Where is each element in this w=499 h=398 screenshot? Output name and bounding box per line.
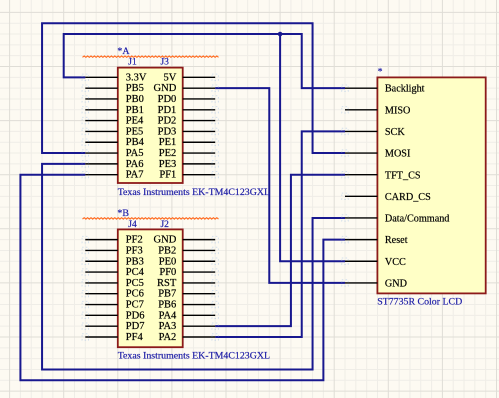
svg-text:PD2: PD2: [158, 116, 177, 127]
svg-text:PE4: PE4: [126, 116, 144, 127]
svg-text:PA6: PA6: [126, 159, 144, 170]
svg-text:J3: J3: [160, 58, 169, 68]
svg-text:PC7: PC7: [126, 300, 144, 311]
svg-text:PC6: PC6: [126, 289, 144, 300]
svg-text:PB5: PB5: [126, 83, 144, 94]
svg-text:PF0: PF0: [159, 267, 176, 278]
svg-text:*: *: [378, 68, 383, 78]
svg-text:PE5: PE5: [126, 126, 144, 137]
svg-text:PD3: PD3: [158, 126, 177, 137]
svg-text:SCK: SCK: [385, 127, 405, 138]
svg-text:PE2: PE2: [159, 148, 177, 159]
svg-text:MOSI: MOSI: [385, 149, 411, 160]
svg-text:Data/Command: Data/Command: [385, 214, 450, 225]
svg-text:PC4: PC4: [126, 267, 145, 278]
svg-text:PF4: PF4: [126, 332, 144, 343]
svg-text:PB2: PB2: [158, 245, 176, 256]
svg-text:PD7: PD7: [126, 321, 145, 332]
svg-text:PA2: PA2: [159, 332, 177, 343]
svg-text:PB7: PB7: [158, 289, 176, 300]
svg-text:GND: GND: [385, 279, 407, 290]
svg-text:PC5: PC5: [126, 278, 144, 289]
svg-text:PF1: PF1: [159, 170, 176, 181]
svg-text:PE0: PE0: [159, 256, 177, 267]
svg-text:PE3: PE3: [159, 159, 177, 170]
svg-text:3.3V: 3.3V: [126, 72, 147, 83]
svg-text:Backlight: Backlight: [385, 84, 425, 95]
svg-text:J1: J1: [128, 58, 137, 68]
svg-text:PB4: PB4: [126, 137, 145, 148]
svg-text:PB6: PB6: [158, 300, 176, 311]
svg-text:PD6: PD6: [126, 310, 145, 321]
svg-text:PA7: PA7: [126, 170, 144, 181]
svg-text:VCC: VCC: [385, 257, 406, 268]
svg-text:TFT_CS: TFT_CS: [385, 170, 421, 181]
svg-text:PB1: PB1: [126, 105, 144, 116]
svg-text:Texas Instruments EK-TM4C123GX: Texas Instruments EK-TM4C123GXL: [118, 187, 270, 198]
svg-text:PD1: PD1: [158, 105, 177, 116]
svg-text:Reset: Reset: [385, 235, 408, 246]
svg-text:*B: *B: [117, 208, 129, 219]
svg-text:PA5: PA5: [126, 148, 144, 159]
svg-text:Texas Instruments EK-TM4C123GX: Texas Instruments EK-TM4C123GXL: [118, 350, 270, 361]
svg-text:RST: RST: [157, 278, 177, 289]
svg-text:PD0: PD0: [158, 94, 177, 105]
svg-text:PA3: PA3: [159, 321, 177, 332]
svg-text:PB0: PB0: [126, 94, 144, 105]
svg-text:PA4: PA4: [159, 310, 177, 321]
svg-text:J4: J4: [128, 220, 137, 230]
svg-text:5V: 5V: [163, 72, 176, 83]
svg-text:J2: J2: [160, 220, 169, 230]
svg-text:PE1: PE1: [159, 137, 177, 148]
svg-text:*A: *A: [117, 46, 130, 57]
svg-text:PB3: PB3: [126, 256, 144, 267]
svg-text:CARD_CS: CARD_CS: [385, 192, 431, 203]
svg-text:GND: GND: [154, 83, 177, 94]
svg-text:ST7735R Color LCD: ST7735R Color LCD: [377, 297, 462, 308]
svg-text:PF3: PF3: [126, 245, 143, 256]
svg-text:MISO: MISO: [385, 105, 410, 116]
svg-text:GND: GND: [154, 235, 177, 246]
svg-text:PF2: PF2: [126, 235, 143, 246]
